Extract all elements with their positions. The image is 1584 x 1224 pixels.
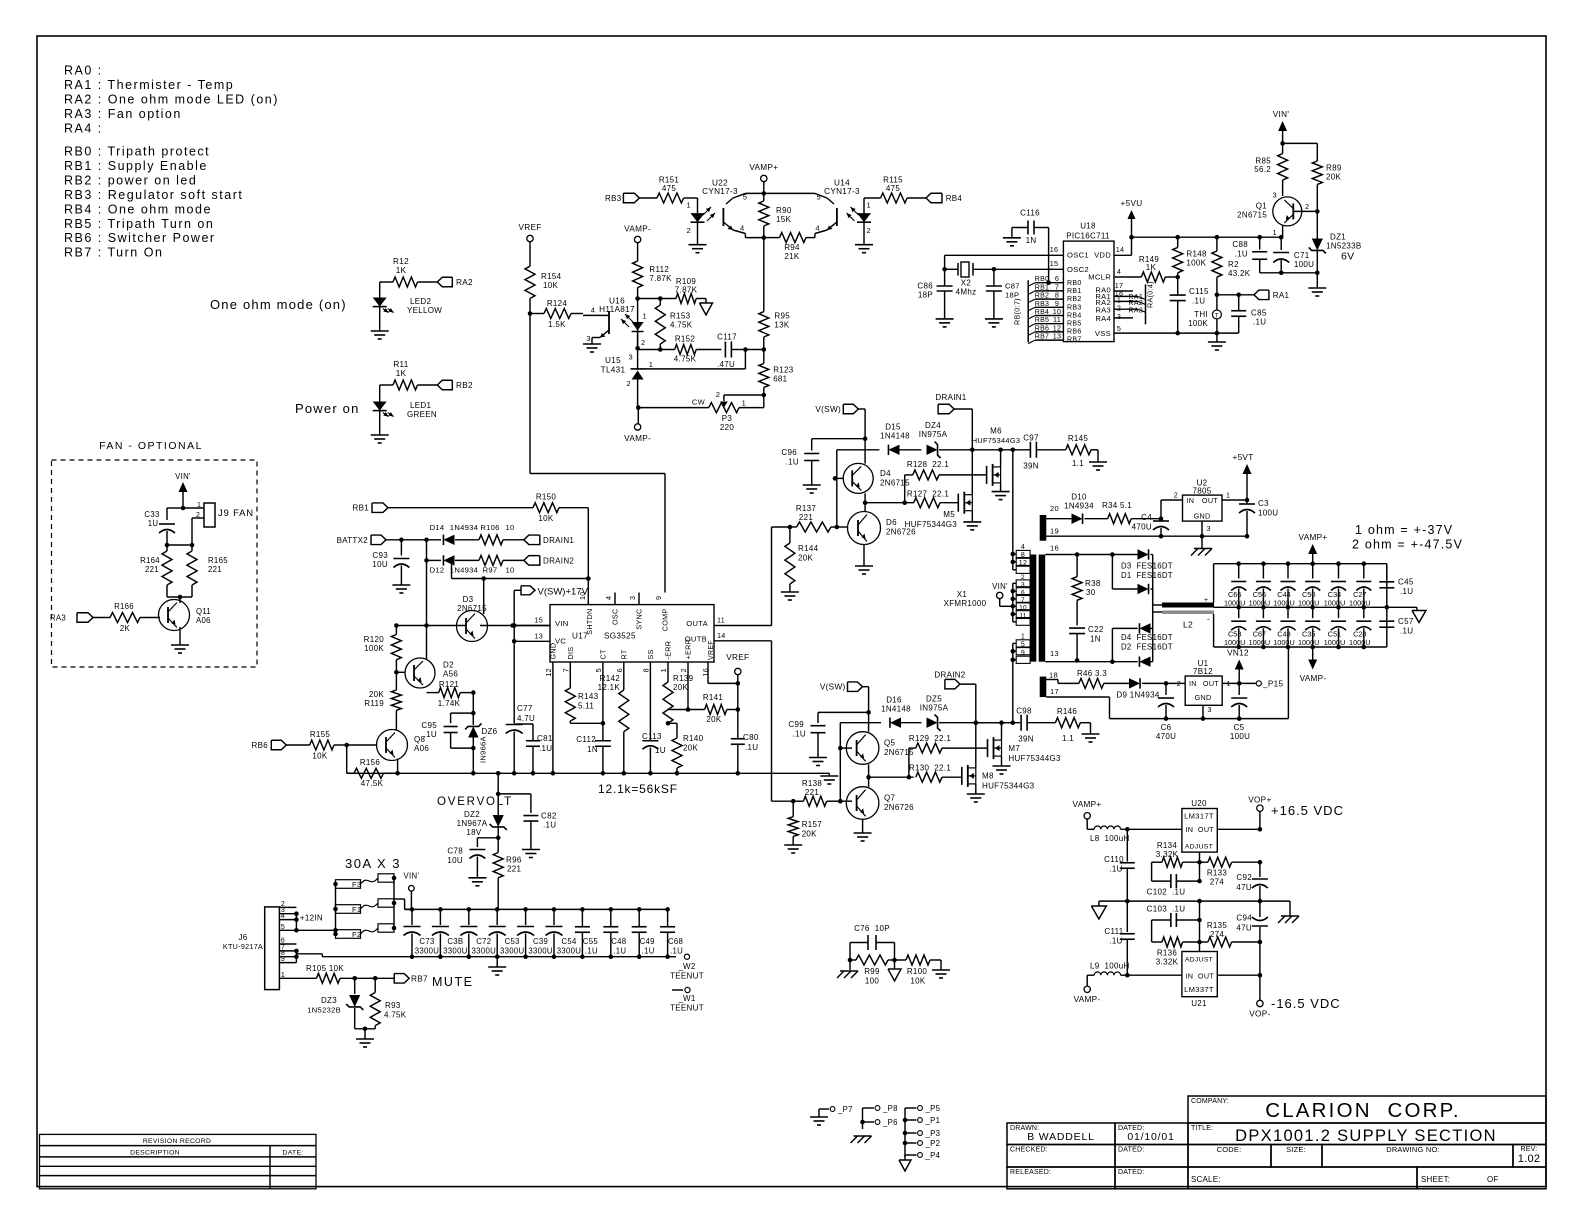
svg-text:RB0 : Tripath protect: RB0 : Tripath protect: [64, 145, 210, 159]
svg-text:.1U: .1U: [1192, 297, 1205, 306]
svg-text:9: 9: [1021, 650, 1025, 657]
tag RA1: [1254, 290, 1269, 300]
svg-text:RB6: RB6: [1067, 329, 1082, 336]
title block title cell: [1188, 1123, 1546, 1145]
node DRAIN2 M8 junction: [974, 720, 979, 725]
tag DRAIN2 lower: [945, 679, 960, 689]
svg-text:.1U: .1U: [786, 458, 799, 467]
svg-text:LED2: LED2: [410, 297, 431, 306]
svg-text:C3B: C3B: [447, 937, 463, 946]
svg-text:1: 1: [867, 201, 871, 210]
svg-text:1N4148: 1N4148: [881, 705, 911, 714]
resistor R149: [1141, 272, 1165, 282]
svg-text:12: 12: [544, 668, 553, 677]
svg-text:15K: 15K: [776, 215, 791, 224]
svg-text:2N6715: 2N6715: [1237, 211, 1267, 220]
svg-text:D12: D12: [430, 566, 445, 575]
svg-text:1: 1: [643, 312, 647, 321]
svg-text:R142: R142: [600, 674, 621, 683]
wire U16 to TL431: [637, 332, 639, 371]
svg-text:SS: SS: [646, 649, 655, 659]
svg-text:9: 9: [281, 956, 285, 963]
wire LED2 anode: [379, 282, 381, 298]
title block company cell: [1188, 1096, 1546, 1123]
svg-text:2: 2: [641, 338, 645, 347]
svg-text:20K: 20K: [673, 683, 688, 692]
ground C82: [522, 849, 540, 851]
ground C96: [803, 484, 821, 486]
capacitor C3: [1239, 503, 1255, 505]
main cap bank top rail: [405, 908, 668, 910]
svg-text:CYN17-3: CYN17-3: [702, 187, 738, 196]
svg-text:RA4 :: RA4 :: [64, 121, 103, 135]
svg-text:U18: U18: [1080, 222, 1096, 231]
svg-text:R157: R157: [802, 820, 823, 829]
transistor D3 2N6715: [457, 611, 488, 642]
svg-text:C96: C96: [781, 448, 797, 457]
transformer pins 4 8 12: [1016, 550, 1030, 557]
secondary bottom rail: [1110, 718, 1289, 720]
svg-text:C4: C4: [1141, 513, 1152, 522]
resistor R120: [395, 626, 397, 635]
svg-text:C115: C115: [1189, 287, 1209, 296]
zener DZ3 1N5232B: [354, 978, 356, 994]
svg-text:Q11: Q11: [196, 607, 211, 616]
svg-text:VN12: VN12: [1227, 649, 1249, 658]
svg-text:D2: D2: [443, 661, 454, 670]
svg-text:Q1: Q1: [1256, 202, 1268, 211]
svg-text:13: 13: [1053, 332, 1062, 341]
svg-text:J6: J6: [238, 933, 247, 942]
wire Q7 emitter gnd: [862, 819, 864, 833]
terminal _P5: [905, 1107, 917, 1109]
fuse right bus: [393, 878, 395, 928]
tag RB2: [437, 380, 452, 390]
svg-text:30: 30: [1086, 588, 1096, 597]
svg-text:R156: R156: [360, 758, 381, 767]
svg-text:4.75K: 4.75K: [670, 321, 693, 330]
svg-text:56.2: 56.2: [1254, 165, 1271, 174]
capacitor C51 1000U: [1338, 607, 1340, 618]
transistor Q7 2N6726: [846, 787, 879, 820]
svg-text:R100: R100: [907, 967, 928, 976]
svg-text:D4 FES16DT: D4 FES16DT: [1121, 633, 1173, 642]
capacitor C88: [1259, 237, 1261, 249]
ground P7: [818, 1109, 820, 1117]
svg-text:SCALE:: SCALE:: [1191, 1175, 1221, 1184]
svg-text:1000U: 1000U: [1224, 638, 1246, 647]
wire VDD: [1129, 235, 1134, 240]
mute bottom join: [355, 1028, 376, 1030]
svg-text:4.75K: 4.75K: [674, 355, 697, 364]
svg-text:L8 100uH: L8 100uH: [1090, 834, 1130, 843]
wire OSC2: [994, 268, 1064, 270]
svg-text:A56: A56: [443, 670, 458, 679]
svg-text:SG3525: SG3525: [604, 632, 636, 641]
svg-text:18P: 18P: [918, 291, 933, 300]
node C78 R96: [496, 836, 501, 841]
ground R109 triangle: [696, 298, 706, 300]
ic U17 SG3525 box: [550, 605, 714, 662]
resistor R115: [864, 197, 881, 199]
svg-text:2N6715: 2N6715: [457, 604, 487, 613]
capacitor C98: [1020, 715, 1022, 731]
svg-text:A06: A06: [196, 616, 211, 625]
svg-text:3: 3: [586, 334, 590, 343]
svg-text:C55: C55: [583, 937, 599, 946]
wire J9 pin2 to C33: [191, 518, 193, 545]
svg-text:C5: C5: [1234, 723, 1245, 732]
svg-text:20K: 20K: [798, 554, 813, 563]
svg-text:RA2: RA2: [456, 278, 473, 287]
main cap bank bottom rail: [322, 956, 667, 958]
svg-text:7: 7: [1021, 597, 1025, 604]
pin +ERR 2 wire: [687, 662, 689, 710]
svg-text:SYNC: SYNC: [635, 609, 644, 630]
ground R146: [1082, 733, 1100, 735]
svg-text:RB1: RB1: [1067, 288, 1082, 295]
svg-text:12.1K: 12.1K: [598, 683, 621, 692]
svg-text:Q7: Q7: [884, 794, 896, 803]
resistor R89: [1316, 143, 1318, 161]
capacitor C48 1000U: [1287, 607, 1289, 618]
svg-text:_P1: _P1: [925, 1116, 941, 1125]
svg-text:DZ3: DZ3: [321, 996, 337, 1005]
svg-text:THI: THI: [1194, 310, 1208, 319]
capacitor C73 3300U: [410, 907, 415, 912]
svg-text:1N: 1N: [1090, 635, 1101, 644]
svg-text:.1U: .1U: [1400, 627, 1413, 636]
node R148 MCLR: [1175, 275, 1180, 280]
svg-text:M6: M6: [990, 427, 1002, 436]
title block dated cell: [1115, 1123, 1188, 1145]
svg-text:100K: 100K: [1188, 319, 1208, 328]
connector J6 KTU-9217A: [265, 907, 280, 990]
svg-text:7.87K: 7.87K: [675, 286, 698, 295]
svg-text:16: 16: [1050, 544, 1059, 553]
resistor R128 row: [904, 475, 906, 503]
transformer X1 secondary winding bar: [1039, 555, 1046, 662]
wire D2 emitter: [426, 658, 428, 660]
title block scale cell: [1188, 1167, 1417, 1189]
svg-text:RB7: RB7: [1035, 334, 1050, 341]
svg-text:X1: X1: [957, 590, 968, 599]
svg-text:D2 FES16DT: D2 FES16DT: [1121, 643, 1173, 652]
wire R109 branch: [638, 298, 676, 300]
svg-text:C82: C82: [541, 812, 557, 821]
svg-text:4Mhz: 4Mhz: [956, 288, 977, 297]
resistor R94: [764, 237, 780, 239]
svg-text:13: 13: [1050, 649, 1059, 658]
wire D3 collector row: [451, 560, 453, 578]
svg-text:RB7: RB7: [411, 975, 428, 984]
svg-text:C45: C45: [1398, 578, 1414, 587]
wire Q7 base: [840, 800, 852, 802]
wire M7 drain: [1001, 723, 1003, 740]
svg-text:30A X 3: 30A X 3: [345, 856, 401, 871]
terminal _P1: [905, 1119, 917, 1121]
resistor R144: [789, 527, 791, 543]
ground LED2: [371, 330, 389, 332]
wire U2 gnd: [1201, 521, 1203, 536]
node DZ2 top: [496, 792, 501, 797]
svg-text:VOP+: VOP+: [1248, 796, 1271, 805]
resistor R121: [427, 692, 439, 694]
svg-text:_P15: _P15: [1262, 680, 1283, 689]
trimpot P3: [762, 393, 767, 398]
wire VREF to comp: [529, 314, 531, 474]
resistor R96: [493, 853, 503, 878]
svg-text:1.1: 1.1: [1062, 734, 1074, 743]
svg-text:4: 4: [740, 224, 744, 233]
svg-text:.1U: .1U: [1109, 937, 1122, 946]
svg-text:2: 2: [627, 379, 631, 388]
svg-text:R127 22.1: R127 22.1: [907, 490, 949, 499]
svg-text:221: 221: [507, 865, 521, 874]
capacitor C94: [1259, 901, 1261, 917]
diode D12 1N4934: [427, 559, 442, 561]
svg-text:6V: 6V: [1341, 251, 1354, 263]
tag BATTX2: [371, 535, 386, 545]
svg-text:LM337T: LM337T: [1184, 985, 1214, 994]
wire J6 to fuses: [296, 929, 335, 931]
svg-text:R137: R137: [796, 504, 817, 513]
node overvolt tap: [496, 771, 501, 776]
svg-text:Power on: Power on: [295, 401, 360, 416]
diode D16 1N4148: [890, 718, 901, 728]
svg-text:CYN17-3: CYN17-3: [824, 187, 860, 196]
resistor R154: [525, 266, 535, 298]
svg-text:.1U: .1U: [670, 947, 683, 956]
diode D14 1N4934: [443, 535, 454, 545]
svg-text:TEENUT: TEENUT: [670, 1004, 704, 1013]
svg-text:GND: GND: [1195, 693, 1212, 702]
svg-text:681: 681: [773, 374, 787, 383]
svg-text:VAMP+: VAMP+: [749, 163, 778, 172]
svg-text:_P2: _P2: [925, 1139, 941, 1148]
capacitor C67 1000U: [1262, 607, 1264, 618]
svg-text:20K: 20K: [1326, 173, 1341, 182]
svg-text:1N4934: 1N4934: [1064, 502, 1094, 511]
node RA1 row: [1215, 293, 1220, 298]
wire cap bank return: [1287, 647, 1289, 719]
svg-text:3: 3: [1208, 705, 1212, 714]
svg-text:RB4: RB4: [1035, 309, 1050, 316]
svg-text:R2: R2: [1228, 260, 1239, 269]
svg-text:.1U: .1U: [1109, 865, 1122, 874]
fuse F1: [336, 905, 361, 914]
svg-text:10K: 10K: [543, 281, 558, 290]
svg-text:_W1: _W1: [677, 994, 696, 1003]
title block drawn cell: [1007, 1123, 1115, 1145]
svg-text:4.75K: 4.75K: [384, 1011, 407, 1020]
svg-text:1 ohm = +-37V: 1 ohm = +-37V: [1355, 523, 1453, 537]
svg-text:100K: 100K: [364, 644, 384, 653]
svg-text:DZ4: DZ4: [925, 421, 941, 430]
transformer pins 1 5 9: [1016, 640, 1030, 647]
svg-text:C78: C78: [447, 847, 463, 856]
resistor R90: [759, 201, 769, 226]
svg-text:2 ohm = +-47.5V: 2 ohm = +-47.5V: [1352, 538, 1463, 552]
svg-text:20: 20: [1050, 504, 1059, 513]
svg-text:R135: R135: [1207, 921, 1228, 930]
svg-text:R155: R155: [310, 730, 331, 739]
svg-text:SHEET:: SHEET:: [1421, 1175, 1450, 1184]
svg-text:RB1: RB1: [1035, 284, 1050, 291]
svg-text:2K: 2K: [120, 624, 131, 633]
resistor R152: [638, 349, 675, 351]
svg-text:OUT: OUT: [1198, 972, 1214, 981]
wire U2 out: [1222, 499, 1247, 501]
terminal VOP+: [1259, 812, 1261, 830]
svg-text:10: 10: [505, 566, 514, 575]
svg-text:RELEASED:: RELEASED:: [1010, 1169, 1051, 1176]
svg-text:J9 FAN: J9 FAN: [218, 508, 254, 519]
svg-text:C57: C57: [1398, 617, 1414, 626]
svg-text:10K: 10K: [910, 977, 925, 986]
wire SHTDN node: [586, 576, 591, 581]
svg-text:IN: IN: [1186, 825, 1194, 834]
resistor R109: [676, 294, 696, 304]
resistor R119: [391, 690, 401, 710]
svg-text:OVERVOLT: OVERVOLT: [437, 796, 513, 808]
svg-text:TITLE:: TITLE:: [1191, 1125, 1213, 1132]
svg-text:+5VU: +5VU: [1121, 199, 1143, 208]
diode D4 FES16DT: [1112, 627, 1137, 629]
svg-text:RB4: RB4: [946, 194, 963, 203]
svg-text:DATE:: DATE:: [282, 1150, 303, 1157]
svg-text:5: 5: [1021, 641, 1025, 648]
wire M6 source gnd: [1000, 483, 1002, 492]
svg-text:COMPANY:: COMPANY:: [1191, 1098, 1229, 1105]
opto U14 transistor: [815, 193, 827, 198]
teenut W1: [672, 989, 683, 991]
node R90 bottom: [762, 235, 767, 240]
svg-text:RT: RT: [619, 649, 628, 659]
svg-text:221: 221: [145, 565, 159, 574]
svg-text:M7: M7: [1008, 744, 1020, 753]
svg-text:7: 7: [561, 668, 570, 672]
svg-text:1000U: 1000U: [1249, 599, 1271, 608]
capacitor C5: [1238, 683, 1240, 695]
svg-text:R148: R148: [1186, 250, 1207, 259]
node Q8 base: [344, 743, 349, 748]
wire LED2 cathode: [379, 307, 381, 331]
svg-text:C72: C72: [476, 937, 491, 946]
wire Q11 emitter: [179, 627, 181, 645]
svg-text:HUF75344G3: HUF75344G3: [1008, 754, 1061, 763]
svg-text:SHTDN: SHTDN: [585, 609, 594, 635]
svg-text:1000U: 1000U: [1324, 599, 1346, 608]
node C96 branch: [863, 436, 868, 441]
resistor R138: [793, 800, 803, 802]
svg-text:5: 5: [743, 193, 747, 202]
ground mute: [356, 1038, 374, 1040]
svg-text:1N4934: 1N4934: [450, 566, 478, 575]
svg-text:39N: 39N: [1023, 462, 1039, 471]
capacitor C115: [1177, 277, 1179, 295]
svg-text:DATED:: DATED:: [1118, 1169, 1144, 1176]
resistor R127 row: [865, 502, 911, 504]
svg-text:10: 10: [1019, 605, 1027, 612]
svg-text:5: 5: [1117, 324, 1121, 333]
svg-text:7805: 7805: [1193, 487, 1212, 496]
resistor R134: [1152, 861, 1162, 863]
svg-text:X2: X2: [961, 279, 972, 288]
svg-text:DRAIN1: DRAIN1: [935, 393, 966, 402]
resistor R140: [668, 722, 677, 724]
svg-text:1: 1: [742, 399, 746, 408]
capacitor C99: [817, 712, 819, 723]
resistor R85: [1282, 143, 1284, 153]
svg-text:DZ2: DZ2: [464, 810, 480, 819]
resistor R145: [1066, 445, 1091, 455]
node VIN' split: [1280, 141, 1285, 146]
svg-text:RB3 : Regulator soft start: RB3 : Regulator soft start: [64, 188, 243, 202]
svg-text:.1U: .1U: [1235, 250, 1248, 259]
cap bank right vertical: [1386, 564, 1388, 647]
ground VSS: [1216, 333, 1218, 342]
svg-text:_P8: _P8: [882, 1104, 898, 1113]
node +5V rail: [1132, 236, 1282, 238]
svg-text:10K: 10K: [312, 752, 327, 761]
svg-text:CHECKED:: CHECKED:: [1010, 1147, 1048, 1154]
svg-text:1000U: 1000U: [1324, 638, 1346, 647]
svg-text:M8: M8: [982, 772, 994, 781]
ground rail under SG3525: [347, 772, 830, 774]
wire M7 source gnd: [1001, 756, 1003, 766]
svg-text:R143: R143: [578, 692, 599, 701]
svg-text:3.32K: 3.32K: [1156, 850, 1179, 859]
svg-text:VAMP-: VAMP-: [1074, 995, 1101, 1004]
ground R145: [1089, 461, 1107, 463]
ground P4 triangle: [904, 1155, 906, 1160]
resistor R93: [374, 978, 376, 992]
svg-text:R139: R139: [673, 674, 694, 683]
capacitor C58 1000U: [1238, 607, 1240, 618]
svg-text:R105 10K: R105 10K: [306, 964, 344, 973]
svg-text:1K: 1K: [396, 369, 407, 378]
wire Q6 base: [837, 526, 848, 528]
svg-text:3300U: 3300U: [472, 947, 497, 956]
svg-text:_P4: _P4: [925, 1151, 941, 1160]
svg-text:10U: 10U: [447, 856, 463, 865]
terminal VREF out: [735, 668, 741, 674]
node C117 R95 R123: [762, 347, 767, 352]
transistor Q8 A06: [377, 730, 408, 761]
svg-text:12: 12: [1019, 560, 1027, 567]
title block sheet cell: [1417, 1167, 1546, 1189]
svg-text:F1: F1: [352, 905, 361, 914]
svg-text:GREEN: GREEN: [407, 410, 437, 419]
svg-text:9: 9: [654, 596, 663, 600]
svg-text:VIN': VIN': [992, 582, 1008, 591]
svg-text:CODE:: CODE:: [1217, 1145, 1242, 1154]
capacitor C53 3300U: [495, 907, 500, 912]
svg-text:10U: 10U: [372, 560, 388, 569]
wire Q6 collector: [864, 511, 866, 513]
svg-text:20K: 20K: [706, 715, 721, 724]
ground LED1: [371, 434, 389, 436]
capacitor C56 1000U: [1261, 561, 1266, 566]
resistor R135: [1200, 941, 1208, 943]
wire fuse out: [394, 898, 405, 900]
svg-text:5: 5: [817, 193, 821, 202]
resistor R146: [1055, 718, 1080, 728]
svg-text:1.74K: 1.74K: [438, 699, 461, 708]
resistor R136: [1152, 941, 1162, 943]
svg-text:P3: P3: [722, 414, 733, 423]
